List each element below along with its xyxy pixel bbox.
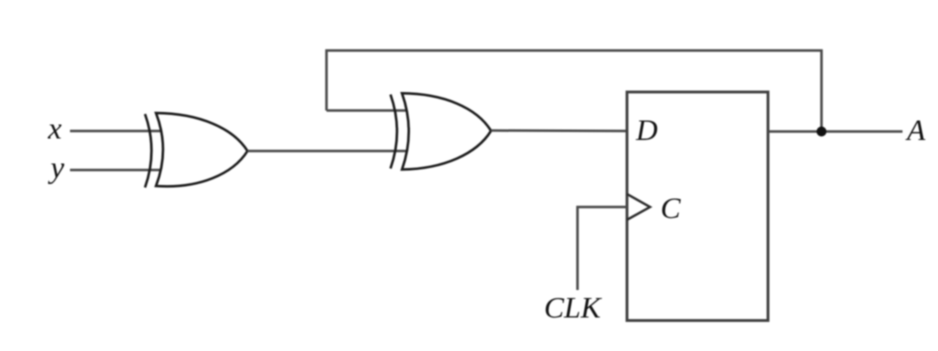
wire output A — [768, 130, 903, 133]
wire feedback to G2 top input — [327, 109, 407, 112]
wire feedback loop — [327, 51, 822, 132]
wire input x — [70, 130, 162, 133]
xor gate G1 — [145, 113, 248, 188]
junction dot — [817, 127, 827, 137]
wire CLK — [578, 207, 628, 290]
D flip-flop box U1 — [627, 92, 768, 321]
svg-text:C: C — [661, 192, 682, 225]
svg-text:A: A — [905, 114, 926, 147]
wire input y — [70, 169, 161, 172]
svg-text:y: y — [48, 150, 65, 185]
xor gate G2 — [391, 93, 492, 169]
wire G2 output to D input — [491, 129, 627, 132]
svg-text:CLK: CLK — [544, 292, 603, 325]
svg-text:x: x — [47, 111, 62, 146]
clock triangle — [627, 194, 650, 220]
wire G1 output to G2 input — [248, 150, 407, 153]
svg-text:D: D — [635, 114, 658, 147]
